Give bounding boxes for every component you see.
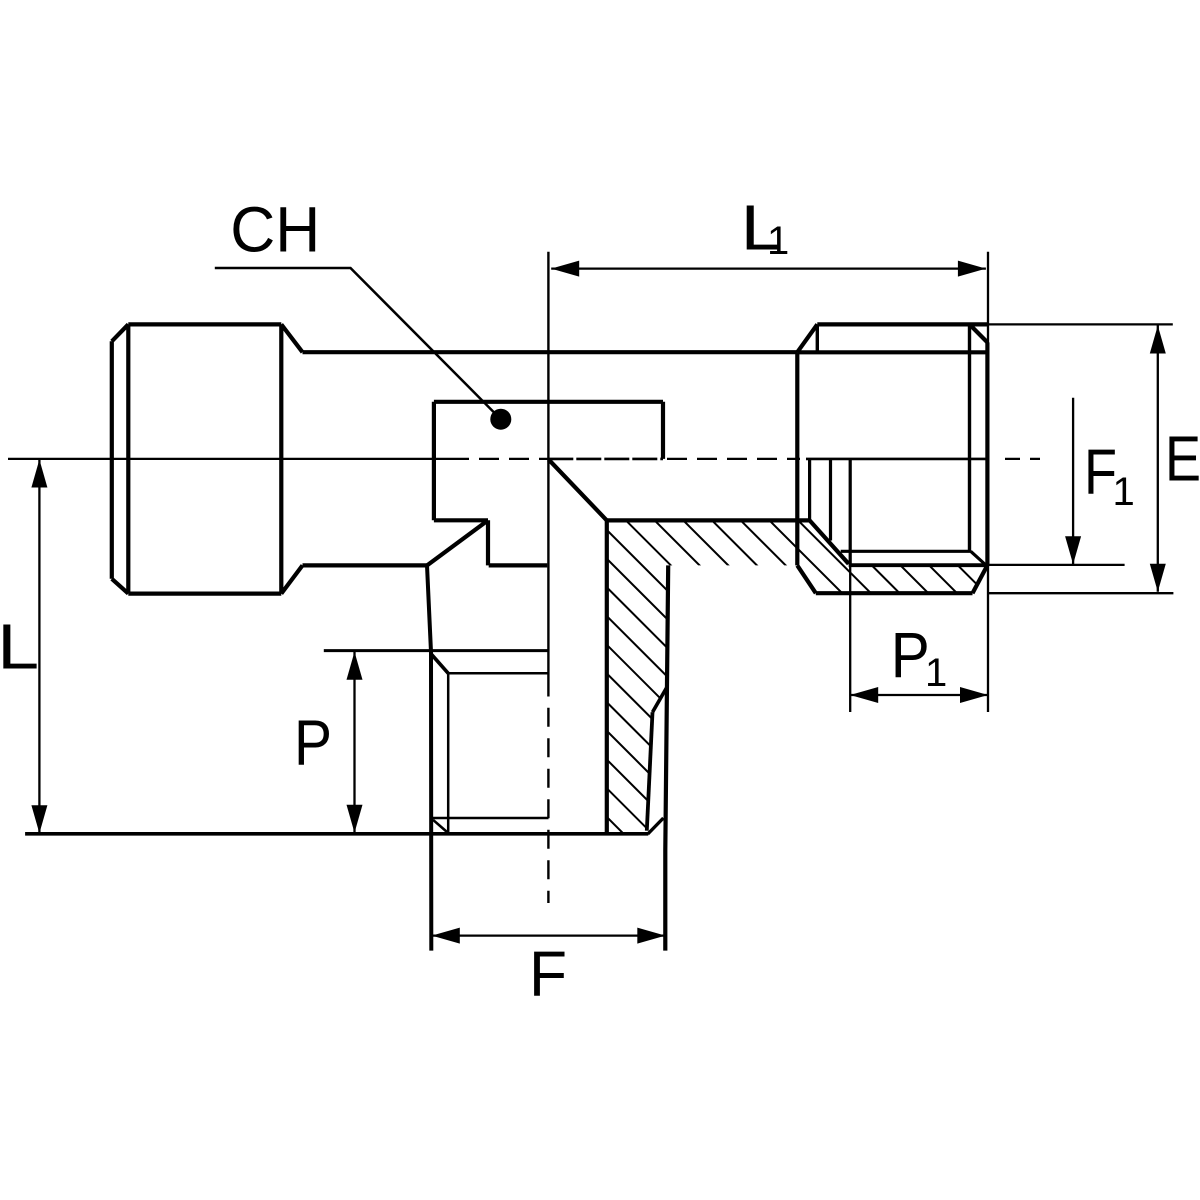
dimension P arrowheads [347,652,363,833]
dimension F1 (line and extension) [987,398,1124,565]
svg-text:1: 1 [925,651,947,695]
dimension L (line) [38,460,40,834]
svg-text:L: L [0,610,39,682]
svg-text:1: 1 [767,219,789,263]
dimension F1 arrowhead [1065,536,1081,564]
dimension P1 (line and left extension) [850,565,988,712]
svg-text:1: 1 [1113,470,1135,514]
svg-text:CH: CH [230,194,320,266]
svg-text:P: P [891,619,930,691]
right female port: outer body outline [797,342,987,593]
dimension E (line and extensions) [987,324,1173,593]
branch vertical centreline [547,252,549,903]
pipe run outline (top and bottom) [303,352,798,565]
centre hex flat (CH) with corner notch and chamfer diagonals [427,402,663,566]
branch sectioned right wall: outer edge (also F extension) [665,565,668,950]
dimension E arrowheads [1150,326,1166,592]
run bottom wall section edges [607,520,849,563]
branch sectioned right wall: inner bore edge [605,520,609,833]
branch thread taper kink [653,687,668,712]
leader dot on hex flat [490,409,511,430]
dimension L arrowheads [31,460,47,834]
right female port: bore verticals below axis [810,459,851,565]
left male stud end: hex cap outline [112,324,303,593]
right female port: thread depth vertical [968,324,971,551]
branch bottom face (with extension to L dimension) [25,832,648,836]
section hatching (45-degree) of branch wall and run/port bottom walls [540,61,1060,1200]
dimension P (line and top extension) [324,651,549,833]
dimension P1 arrowheads [850,687,988,703]
branch thread taper line [647,712,653,831]
right female port: hex corner vertical [816,324,819,352]
svg-text:E: E [1165,423,1200,495]
dimension L1 arrowheads [551,261,986,277]
right female port: counterbore line and mouth chamfer [841,551,986,565]
branch male thread: start chamfer [431,654,449,674]
branch end chamfer right [648,818,664,834]
dimension L1 (line, extension at right face) [551,252,988,712]
branch male thread: end chamfer [433,820,449,834]
right female port: hex cap top [797,324,987,352]
branch male thread: left outer edge (also F extension) [427,565,431,950]
dimension F arrowheads [432,928,666,944]
leader line CH [215,268,501,419]
svg-text:F: F [529,938,567,1010]
branch male thread: minor-diameter lines [433,673,549,833]
dimension F (line) [432,934,666,936]
horizontal centreline [8,458,1040,460]
right female port: bore major line [849,563,986,567]
svg-text:P: P [294,706,332,778]
